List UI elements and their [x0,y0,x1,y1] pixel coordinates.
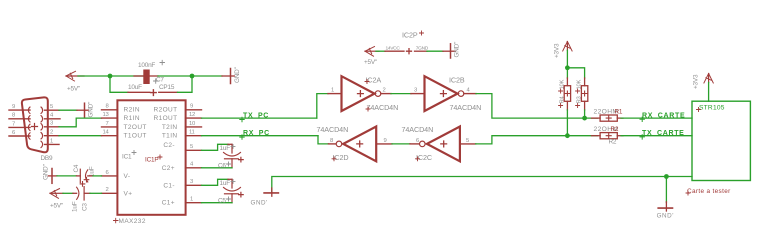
svg-text:3: 3 [190,179,194,185]
svg-text:2: 2 [50,130,53,136]
svg-text:IC2C: IC2C [416,153,432,162]
pin 2 V+ [102,192,118,194]
svg-text:4: 4 [50,113,54,119]
supply +5V arrow IC2P [365,47,379,57]
node junction R4/TX [565,133,570,138]
node junction R3/RX [582,116,587,121]
wire pin2 to MAX232 pin14 [59,135,102,137]
pin 14 T1OUT [102,135,118,137]
svg-text:T1IN: T1IN [162,133,178,140]
pin 9 R2OUT [186,109,202,111]
svg-text:1uF: 1uF [220,145,231,152]
svg-text:C1-: C1- [163,182,175,189]
svg-text:RX_CARTE: RX_CARTE [642,113,685,120]
svg-text:Carte a tester: Carte a tester [687,188,731,195]
ground GND at DB9 pin5 [77,109,88,111]
svg-text:IC2D: IC2D [333,153,349,162]
DB9 center cross [32,124,38,130]
capacitor C6 1uF between pin5 pin4 [202,144,229,150]
svg-text:8: 8 [106,104,110,110]
node junction left [108,74,113,79]
svg-text:IC1: IC1 [122,154,132,161]
svg-text:6: 6 [12,130,16,136]
resistor R2 22OHM [592,135,601,137]
ground GND top [222,75,234,77]
DB9 pin 1 [45,143,60,145]
inverter IC2D 74ACD4N [329,143,336,145]
svg-text:4: 4 [190,162,194,168]
pin 4 C2+ [186,167,202,169]
svg-text:R1OUT: R1OUT [153,115,177,122]
pin 6 V- [102,175,118,177]
resistor R1 22OHM [592,117,601,119]
supply +3V3 arrow at box [704,74,713,84]
svg-text:TX_PC: TX_PC [243,113,269,120]
VCC pin wire [376,50,385,52]
svg-text:GND': GND' [251,200,268,207]
svg-text:10: 10 [189,121,196,127]
supply +3V3 arrow [563,42,572,52]
svg-text:10K: 10K [576,80,582,90]
svg-text:V+: V+ [124,190,133,197]
node junction right [190,74,195,79]
svg-text:R2IN: R2IN [124,107,140,114]
svg-text:C1+: C1+ [162,200,175,207]
svg-text:+5V": +5V" [364,59,377,66]
wire C3 to pin2 [84,192,90,194]
wire R2 to box TX_CARTE [621,135,692,137]
supply +5V arrow at C3 [50,189,63,199]
svg-text:GND": GND" [234,67,241,83]
svg-text:R4: R4 [559,96,565,104]
inverter IC2A 74ACD4N [328,93,342,95]
svg-text:9: 9 [12,104,15,110]
capacitor C3 1uF [77,187,79,199]
inverter IC2C 74ACD4N [427,127,460,162]
svg-text:6: 6 [106,170,110,176]
capacitor C5 1uF between pin3 pin1 [202,179,229,185]
svg-text:+5V": +5V" [67,86,80,93]
DB9 pin 6 [9,135,30,137]
svg-text:IC2P: IC2P [402,31,418,40]
DB9 pin 8 [9,118,30,120]
svg-text:GND": GND" [88,102,95,118]
svg-text:C2-: C2- [163,142,175,149]
wire +5V to C3 [63,192,73,194]
svg-text:8: 8 [330,138,334,144]
wire R3 down to RX row [584,101,586,110]
capacitor C4 1uF [79,169,81,182]
svg-text:GND': GND' [657,213,674,220]
svg-text:+5V": +5V" [50,203,63,210]
wire IC2A out to IC2B in [381,93,391,95]
svg-text:R1: R1 [615,108,623,115]
svg-text:C2+: C2+ [162,165,175,172]
wire GND rail [272,177,692,193]
DB9 pin 9 [9,109,30,111]
svg-text:T2IN: T2IN [162,124,178,131]
ground GND at C4 [51,169,53,184]
svg-text:5: 5 [190,144,194,150]
wire IC2C in up to R2 row [460,143,476,145]
DB9 pin 4 [45,118,61,120]
svg-text:13: 13 [103,112,110,118]
svg-text:12: 12 [189,112,195,118]
node junction +3V3 [565,65,570,70]
supply +5V arrow top-left [66,71,84,81]
pin 5 C2- [186,149,202,151]
svg-text:7: 7 [106,121,109,127]
DB9 left contacts [28,107,30,139]
svg-text:1: 1 [331,88,334,94]
svg-text:C5: C5 [218,198,226,205]
svg-text:74ACD4N: 74ACD4N [317,125,349,134]
ground GND right [665,177,667,203]
svg-text:CP15: CP15 [159,84,175,91]
pin 3 C1- [186,184,202,186]
svg-text:7: 7 [12,121,15,127]
svg-text:3: 3 [414,88,418,94]
svg-text:7GND: 7GND [416,46,429,52]
svg-text:C3: C3 [82,203,89,211]
svg-text:11: 11 [189,130,195,136]
svg-text:5: 5 [50,104,54,110]
wire pin5 to GND [59,109,77,111]
capacitor C15 10uF branch [110,76,128,92]
capacitor C7 100nF plates [143,70,149,85]
wire to R4 [566,68,568,78]
pin 12 R1OUT [186,117,202,119]
svg-text:MAX232: MAX232 [119,218,146,225]
pin 13 R1IN [102,117,118,119]
box Carte a tester [692,101,750,180]
svg-text:74ACD4N: 74ACD4N [367,103,399,112]
svg-text:R2: R2 [609,139,617,146]
svg-text:GND": GND" [43,164,50,180]
wire to R3 [567,68,584,78]
DB9 pin 3 [45,126,60,128]
wire RX_PC drop to IC2D [318,136,329,144]
svg-text:100nF: 100nF [138,62,155,69]
inverter IC2B 74ACD4N [425,76,458,111]
wire pin3 to MAX232 pin13 [59,118,102,127]
node junction GND rail [664,174,669,179]
svg-text:IC1P: IC1P [145,157,158,164]
wire C4 to pin6 [88,175,93,177]
wire R4 down to TX row [566,101,568,110]
resistor R4 10K [564,86,570,102]
svg-text:74ACD4N: 74ACD4N [450,103,482,112]
resistor R3 10K [581,86,587,102]
svg-text:TX_CARTE: TX_CARTE [642,130,685,137]
svg-text:8: 8 [12,113,16,119]
svg-text:5: 5 [466,138,470,144]
svg-text:1uF: 1uF [220,180,231,187]
wire RX_PC [202,135,319,137]
svg-text:1: 1 [190,197,193,203]
connector DB9 outline [22,97,48,152]
svg-text:14VCC: 14VCC [386,46,401,52]
wire +5V to C7 [78,75,144,77]
svg-text:1uF: 1uF [72,201,79,212]
svg-text:2: 2 [106,187,109,193]
svg-text:C7: C7 [156,77,164,84]
svg-text:T2OUT: T2OUT [124,124,147,131]
svg-text:74ACD4N: 74ACD4N [402,125,434,134]
wire IC2B out down to R1 row [464,93,476,95]
pin 7 T2OUT [102,126,118,128]
svg-text:DB9: DB9 [41,155,53,162]
pin 10 T2IN [186,126,202,128]
svg-text:STR105: STR105 [699,104,725,111]
svg-text:R3: R3 [576,96,582,104]
GND pin wire [415,50,428,52]
pin 8 R2IN [102,109,118,111]
svg-text:R2: R2 [611,126,619,133]
svg-text:GND": GND" [454,42,461,58]
svg-text:4: 4 [467,88,471,94]
IC IC1 MAX232 body [117,100,185,215]
svg-text:14: 14 [103,130,110,136]
svg-text:R1IN: R1IN [124,115,140,122]
pin 11 T1IN [186,135,202,137]
DB9 pin 5 [45,109,60,111]
DB9 right contacts [41,107,43,148]
svg-text:C6: C6 [218,163,226,170]
svg-text:T1OUT: T1OUT [124,133,147,140]
svg-text:C4: C4 [73,164,80,172]
DB9 pin 2 [45,135,60,137]
ground GND left [264,192,278,194]
svg-text:+3V3: +3V3 [554,43,561,58]
svg-text:IC2A: IC2A [366,76,382,85]
DB9 pin 7 [9,126,30,128]
wire TX_PC [202,117,317,119]
svg-text:R2OUT: R2OUT [153,107,177,114]
svg-text:2: 2 [383,88,386,94]
svg-text:V-: V- [124,173,131,180]
IC2P origin cross [407,49,412,54]
svg-text:RX_PC: RX_PC [243,130,270,137]
wire R1 to box RX_CARTE [621,117,692,119]
wire +3V3 to box [708,83,710,102]
svg-text:3: 3 [50,121,54,127]
wire C7 to GND [150,75,158,77]
svg-text:10K: 10K [559,80,565,90]
ground GND at IC2P [450,44,452,58]
wire +3V3 down [566,50,568,68]
svg-text:+3V3: +3V3 [693,74,700,89]
svg-text:10uF: 10uF [128,84,142,91]
svg-text:9: 9 [384,138,387,144]
wire TX_PC rise to IC2A [317,94,328,119]
svg-text:9: 9 [190,104,193,110]
wire IC2D in to IC2C out [376,143,392,145]
wire GND to C4 [57,175,77,177]
pin 1 C1+ [186,202,202,204]
svg-text:IC2B: IC2B [449,76,465,85]
svg-text:1: 1 [50,138,53,144]
